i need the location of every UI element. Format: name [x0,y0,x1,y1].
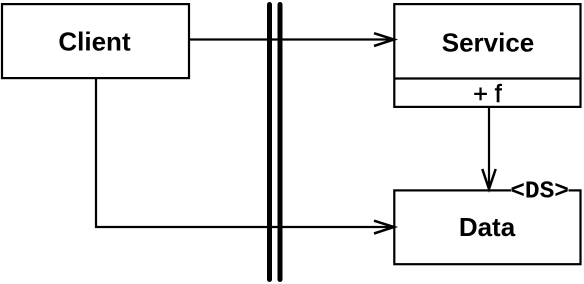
svg-text:<DS>: <DS> [510,179,569,206]
svg-text:+ f: + f [473,80,502,108]
svg-text:Client: Client [58,27,131,57]
svg-text:Data: Data [459,212,516,242]
svg-text:Service: Service [442,27,535,57]
